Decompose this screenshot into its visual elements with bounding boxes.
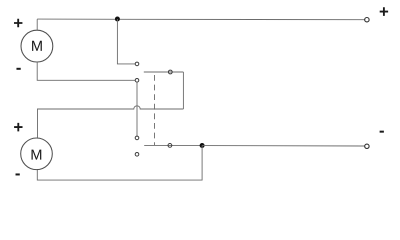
node J1 (junction on top rail) — [115, 17, 120, 22]
wire (J1 down to contact 1) — [117, 19, 135, 64]
contact 2 (switch S1 lower throw) — [135, 79, 139, 83]
motor M1 (upper) — [21, 30, 53, 62]
wire (lower motor top lead with crossover hop) — [38, 106, 184, 138]
node J2 (junction on bottom rail) — [200, 143, 205, 148]
terminal - (bottom right) — [365, 144, 369, 148]
wire (top supply rail) — [37, 18, 365, 21]
contact 1 (switch S1 upper throw) — [135, 62, 139, 66]
contact 3 (pole 1 pivot) — [168, 70, 172, 74]
wire (bottom supply rail) — [202, 145, 365, 147]
switch arm S2 (pole 2, neutral) — [144, 144, 202, 146]
terminal + (top right) — [365, 18, 369, 22]
label - (upper motor minus) — [16, 68, 20, 70]
wire (J2 down and left to lower motor minus) — [37, 146, 202, 181]
mechanical link (dashed coupling of S1/S2) — [154, 75, 156, 145]
label + (upper motor plus) — [14, 19, 22, 28]
switch arm S1 (pole 1, neutral) — [144, 71, 184, 73]
wire (upper motor bottom lead to contact 2) — [37, 62, 135, 81]
label - (lower motor minus) — [16, 173, 20, 175]
contact 6 (pole 2 pivot) — [168, 144, 172, 148]
wire (contact 2 to contact 4) — [136, 82, 138, 136]
motor M2 (lower) — [21, 138, 53, 170]
contact 5 (switch S2 lower throw, unconnected) — [135, 153, 139, 157]
label - (bottom right) — [380, 131, 384, 133]
label + (lower motor plus) — [14, 123, 22, 132]
wire (pole 1 to lower motor plus, right side) — [182, 72, 184, 109]
wire (upper motor top lead) — [36, 19, 38, 30]
label + (top right) — [380, 7, 388, 16]
contact 4 (switch S2 upper throw) — [135, 136, 139, 140]
